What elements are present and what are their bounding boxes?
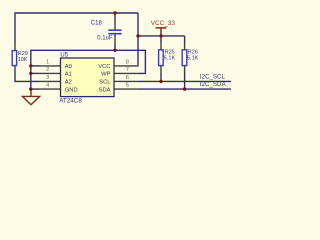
svg-text:A1: A1 — [65, 72, 72, 78]
svg-text:6: 6 — [126, 75, 129, 81]
svg-text:SCL: SCL — [99, 80, 111, 86]
pin R29 top — [14, 42, 16, 51]
wire SCL row to label — [138, 80, 231, 82]
svg-text:VCC: VCC — [98, 64, 110, 70]
wire pin4 row — [31, 88, 39, 90]
pin 4 — [38, 88, 61, 90]
pin 3 — [38, 80, 61, 82]
junction bus pin1 — [29, 64, 32, 67]
pin 1 — [38, 65, 61, 67]
op IC U5 box — [61, 58, 115, 97]
svg-text:I2C_SDA: I2C_SDA — [200, 81, 227, 88]
resistor R26 — [182, 50, 187, 66]
svg-text:A2: A2 — [65, 80, 72, 86]
wire R26 bottom lead — [184, 73, 186, 89]
wire pin1 row — [31, 65, 39, 67]
pin R29 bottom — [14, 66, 16, 74]
wire R26 top lead — [184, 36, 186, 42]
wire R25 top lead — [160, 36, 162, 42]
svg-text:AT24C8: AT24C8 — [59, 98, 82, 105]
svg-text:GND: GND — [65, 87, 78, 93]
svg-text:3: 3 — [46, 75, 49, 81]
wire ground net: bus top corner, horizontal run, down to pin7 — [31, 50, 146, 73]
pin 7 — [114, 72, 138, 74]
junction rail left — [136, 34, 139, 37]
wire ground bus vertical — [30, 66, 32, 89]
wire VCC rail horizontal — [138, 35, 185, 37]
wire pin2 row — [31, 72, 39, 74]
pin 6 — [114, 80, 138, 82]
svg-text:0.1uF: 0.1uF — [97, 35, 113, 41]
pin R25 bottom — [160, 66, 162, 74]
svg-text:A0: A0 — [65, 64, 72, 70]
junction bus pin4 — [29, 87, 32, 90]
junction R25 SCL — [159, 80, 162, 83]
svg-text:U5: U5 — [60, 51, 68, 58]
svg-text:2: 2 — [46, 67, 49, 73]
svg-text:5.1K: 5.1K — [187, 56, 199, 62]
junction R26 SDA — [183, 87, 186, 90]
resistor R25 — [159, 50, 164, 66]
pin C18 top — [114, 21, 116, 29]
power port VCC_33 — [156, 28, 167, 36]
svg-text:C18: C18 — [91, 21, 103, 27]
svg-text:10K: 10K — [18, 57, 28, 63]
wire R25 bottom lead — [160, 73, 162, 81]
pin R25 top — [160, 42, 162, 50]
svg-text:8: 8 — [126, 59, 129, 65]
wire VCC top rail — [15, 13, 138, 43]
svg-text:5.1K: 5.1K — [164, 56, 176, 62]
pin 5 — [114, 88, 138, 90]
junction C18 bottom — [113, 49, 116, 52]
svg-text:5: 5 — [126, 83, 129, 89]
wire C18 bottom lead — [114, 43, 116, 50]
wire VCC riser to rail and pin 8 — [137, 13, 139, 66]
svg-text:WP: WP — [101, 72, 110, 78]
capacitor C18 plates — [108, 30, 121, 34]
wire SDA row to label — [138, 88, 231, 90]
pin R26 bottom — [184, 66, 186, 74]
pin R26 top — [184, 42, 186, 50]
pin 2 — [38, 72, 61, 74]
wire R29 bottom lead to pin3 row — [15, 73, 39, 82]
resistor R29 — [12, 51, 16, 66]
junction C18 top — [113, 11, 116, 14]
svg-text:SDA: SDA — [99, 87, 111, 93]
svg-text:4: 4 — [46, 83, 49, 89]
junction bus pin2 — [29, 72, 32, 75]
svg-text:I2C_SCL: I2C_SCL — [200, 73, 226, 80]
svg-text:7: 7 — [126, 67, 129, 73]
ground symbol — [22, 89, 39, 105]
svg-text:VCC_33: VCC_33 — [151, 20, 176, 27]
wire C18 top lead — [114, 13, 116, 22]
pin 8 — [114, 65, 138, 67]
svg-text:1: 1 — [46, 59, 49, 65]
junction VCC stub R25 — [159, 34, 162, 37]
pin C18 bottom — [114, 35, 116, 44]
